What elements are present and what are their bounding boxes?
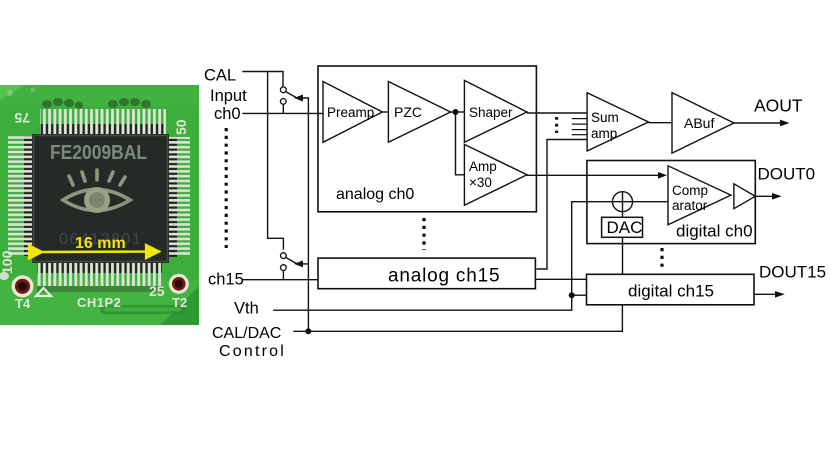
wire DAC to digital ch15 bbox=[622, 237, 624, 274]
wire switch ch0 to control bus bbox=[301, 98, 308, 331]
svg-text:analog ch0: analog ch0 bbox=[336, 186, 414, 203]
svg-text:analog ch15: analog ch15 bbox=[388, 266, 500, 287]
svg-text:arator: arator bbox=[672, 198, 708, 213]
svg-text:FE2009BAL: FE2009BAL bbox=[50, 142, 147, 164]
block digital ch15 bbox=[587, 274, 755, 305]
comparator U1 bbox=[668, 166, 731, 225]
wire junction to Amp bbox=[456, 112, 465, 175]
svg-text:Comp: Comp bbox=[672, 183, 708, 198]
svg-text:Vth: Vth bbox=[234, 300, 259, 318]
svg-text:T4: T4 bbox=[15, 296, 31, 311]
svg-text:75: 75 bbox=[14, 110, 30, 126]
amplifier Amp x30 bbox=[464, 144, 527, 205]
node PZC output junction bbox=[451, 111, 465, 113]
svg-text:Amp: Amp bbox=[469, 159, 497, 174]
mounting hole T4 bbox=[12, 275, 34, 297]
svg-text:amp: amp bbox=[591, 126, 617, 141]
wire switch ch15 to control bus bbox=[301, 263, 308, 265]
wire Shaper to Sum amp bbox=[527, 112, 587, 114]
svg-text:DOUT0: DOUT0 bbox=[758, 165, 816, 184]
wire AOUT bbox=[734, 122, 786, 124]
eye logo bbox=[63, 170, 130, 213]
PCB silkscreen labels bbox=[0, 110, 189, 311]
svg-text:ch15: ch15 bbox=[208, 271, 244, 289]
svg-text:CH1P2: CH1P2 bbox=[77, 295, 121, 310]
svg-text:digital ch0: digital ch0 bbox=[676, 222, 753, 241]
svg-text:T2: T2 bbox=[172, 295, 187, 310]
wire Sum amp to ABuf bbox=[649, 122, 673, 124]
svg-text:AOUT: AOUT bbox=[754, 96, 803, 116]
wire Preamp to PZC bbox=[382, 111, 388, 113]
sum amp input stubs bbox=[572, 119, 587, 135]
wire CAL feed bbox=[242, 72, 283, 87]
svg-text:DOUT15: DOUT15 bbox=[759, 263, 826, 282]
node Vth junction bbox=[569, 292, 575, 298]
chip package bbox=[8, 98, 190, 292]
dotted line input channels bbox=[225, 128, 228, 248]
svg-text:CAL: CAL bbox=[204, 67, 236, 85]
wire DOUT15 bbox=[754, 293, 781, 295]
amplifier Sum amp bbox=[587, 93, 648, 151]
wire analog ch15 to sum amp bbox=[536, 140, 587, 270]
amplifier Preamp bbox=[323, 82, 382, 143]
amplifier ABuf bbox=[672, 93, 734, 154]
wire analog ch15 to digital ch15 bbox=[535, 278, 586, 280]
block DAC bbox=[602, 217, 643, 237]
pad oval left edge bbox=[0, 272, 9, 280]
block analog ch15 bbox=[318, 258, 535, 289]
svg-text:25: 25 bbox=[149, 283, 165, 299]
svg-text:Sum: Sum bbox=[591, 110, 619, 125]
svg-text:ABuf: ABuf bbox=[684, 115, 714, 131]
switch ch15 bbox=[281, 253, 304, 280]
buffer digital out bbox=[734, 184, 755, 209]
16 mm dimension arrow bbox=[43, 235, 160, 252]
index triangle bbox=[36, 288, 51, 296]
svg-text:×30: ×30 bbox=[469, 175, 492, 190]
dotted line digital channels bbox=[660, 248, 663, 270]
wire Vth branch to comparator bbox=[572, 202, 613, 296]
svg-text:DAC: DAC bbox=[607, 218, 643, 237]
svg-text:Shaper: Shaper bbox=[469, 105, 513, 120]
PCB photo background bbox=[0, 85, 199, 325]
svg-text:PZC: PZC bbox=[394, 104, 422, 120]
svg-text:50: 50 bbox=[173, 119, 189, 135]
block analog ch0 bbox=[318, 66, 536, 212]
switch ch0 bbox=[280, 87, 303, 114]
dotted line sum inputs bbox=[555, 117, 558, 133]
wire CAL/DAC control bbox=[293, 305, 622, 332]
svg-text:100: 100 bbox=[0, 250, 15, 274]
block digital ch0 bbox=[587, 161, 755, 244]
wire input ch0 bbox=[242, 112, 323, 114]
wire Amp x30 to Comparator bbox=[527, 174, 664, 176]
wire Vth bbox=[273, 295, 572, 310]
svg-text:Input: Input bbox=[210, 87, 247, 105]
node control junction bbox=[305, 328, 311, 334]
wire input ch15 bbox=[242, 279, 318, 281]
svg-text:Preamp: Preamp bbox=[327, 105, 374, 120]
amplifier Shaper bbox=[464, 80, 527, 142]
dotted line analog channels bbox=[422, 218, 425, 250]
mounting hole T2 bbox=[169, 274, 189, 294]
amplifier PZC bbox=[388, 82, 450, 143]
svg-text:CAL/DAC: CAL/DAC bbox=[212, 325, 281, 342]
svg-text:ch0: ch0 bbox=[214, 105, 241, 123]
wire DOUT0 bbox=[755, 195, 778, 197]
wire CAL distribution vertical bbox=[268, 72, 284, 250]
summing node circle-plus bbox=[613, 192, 633, 218]
svg-text:Control: Control bbox=[219, 343, 286, 360]
svg-text:16 mm: 16 mm bbox=[75, 235, 126, 252]
svg-text:digital ch15: digital ch15 bbox=[628, 282, 714, 301]
